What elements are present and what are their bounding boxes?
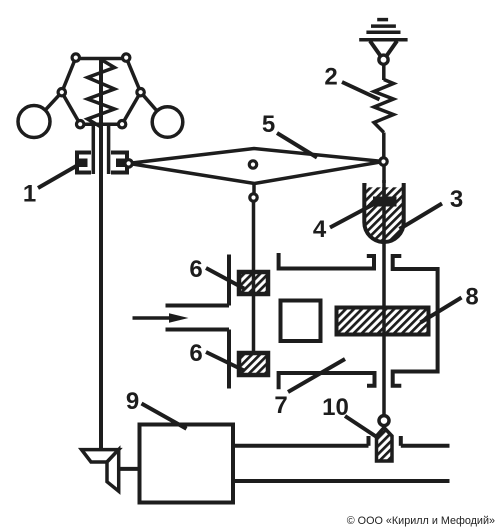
svg-text:4: 4 xyxy=(313,216,327,243)
svg-text:8: 8 xyxy=(465,284,478,311)
air arrow shaft xyxy=(133,316,173,320)
governor arm lower right xyxy=(122,92,141,124)
link joint circle xyxy=(250,194,257,201)
joint mid-right xyxy=(137,89,144,96)
svg-text:6: 6 xyxy=(189,340,202,367)
label 4 pointer xyxy=(330,204,374,228)
lever 5 top edge xyxy=(129,149,384,164)
svg-text:10: 10 xyxy=(322,394,349,421)
svg-text:6: 6 xyxy=(189,256,202,283)
anchor joint circle xyxy=(379,55,388,64)
venturi wall lower xyxy=(227,330,231,389)
joint top-left xyxy=(72,54,79,61)
flyweight ball right xyxy=(152,107,183,138)
sleeve bracket right xyxy=(111,153,127,173)
link from lever to rod xyxy=(252,184,256,195)
sleeve bracket left xyxy=(77,153,91,173)
spring 2 xyxy=(374,80,394,133)
valve 10 joint circle xyxy=(379,416,389,426)
fuel line upper left tick xyxy=(367,436,371,446)
sleeve bearing left xyxy=(78,159,88,168)
anchor line 1 xyxy=(377,18,388,22)
lever right pivot circle xyxy=(380,158,387,165)
drive box 9 xyxy=(140,425,234,503)
main rod segment through dome top xyxy=(382,180,386,197)
float chamber square 7 xyxy=(281,301,321,342)
throttle rod xyxy=(252,202,256,356)
fuel line upper left xyxy=(234,444,369,448)
fuel line lower xyxy=(234,479,450,483)
main rod right xyxy=(382,165,386,415)
governor arm upper right xyxy=(126,58,140,93)
label 7 pointer xyxy=(288,359,345,392)
anchor triangle leg left xyxy=(370,41,382,58)
throttle plate 6 upper xyxy=(239,272,268,294)
anchor triangle leg right xyxy=(385,41,397,58)
bevel gear horizontal blade xyxy=(82,450,119,462)
joint mid-left xyxy=(58,89,65,96)
svg-text:3: 3 xyxy=(450,186,463,213)
sleeve rod left xyxy=(92,126,96,175)
governor shaft xyxy=(99,59,103,450)
anchor line 3 xyxy=(366,31,400,35)
svg-text:5: 5 xyxy=(262,111,275,138)
label 3 pointer xyxy=(400,204,443,230)
label 9 pointer xyxy=(142,404,187,429)
spring upper link xyxy=(382,64,386,80)
label 10 pointer xyxy=(345,416,379,439)
spring lower link xyxy=(382,133,386,159)
gear link to box xyxy=(119,467,140,471)
governor arm upper left xyxy=(62,58,76,93)
svg-text:2: 2 xyxy=(324,64,337,91)
joint bottom-left xyxy=(77,121,84,128)
inlet top wall xyxy=(166,304,230,308)
label 6a pointer xyxy=(206,268,244,289)
label 6b pointer xyxy=(206,352,244,371)
needle 4 xyxy=(373,197,397,207)
governor arm lower left xyxy=(62,92,80,124)
inlet bottom wall xyxy=(166,328,230,332)
joint top-right xyxy=(123,54,130,61)
chamber top-left bracket xyxy=(279,253,374,269)
governor top bar xyxy=(76,57,126,61)
throttle plate 6 lower xyxy=(239,353,268,375)
fuel line upper right tick xyxy=(399,436,403,446)
valve 10 plug xyxy=(377,428,393,462)
anchor base line xyxy=(359,38,407,42)
sleeve rod right xyxy=(107,126,111,175)
air arrow head xyxy=(169,313,189,323)
venturi wall upper xyxy=(227,255,231,306)
label 2 pointer xyxy=(342,82,380,100)
dome top white band xyxy=(367,183,402,187)
sleeve bearing right xyxy=(116,159,126,168)
label 8 pointer xyxy=(421,298,462,323)
label 1 pointer xyxy=(38,165,78,188)
bevel gear vertical blade xyxy=(107,450,119,492)
valve plate 8 xyxy=(337,308,429,335)
joint bottom-right xyxy=(118,121,125,128)
lever left pivot circle xyxy=(125,160,132,167)
label 5 pointer xyxy=(277,133,317,158)
svg-text:7: 7 xyxy=(274,392,287,419)
lever fulcrum circle xyxy=(249,161,256,168)
svg-text:1: 1 xyxy=(23,180,36,207)
governor arm to right ball xyxy=(141,92,164,119)
fuel line upper right xyxy=(401,444,450,448)
flyweight ball left xyxy=(18,106,50,138)
governor bottom bar xyxy=(80,122,122,126)
chamber right wall xyxy=(393,256,438,386)
anchor line 2 xyxy=(371,24,396,28)
dome 3 xyxy=(364,183,403,242)
svg-text:© ООО «Кирилл и Мефодий»: © ООО «Кирилл и Мефодий» xyxy=(347,515,495,527)
lever 5 bottom edge xyxy=(129,162,384,184)
svg-text:9: 9 xyxy=(126,388,139,415)
governor arm to left ball xyxy=(37,92,62,119)
governor spring xyxy=(88,60,115,128)
chamber bottom-left bracket xyxy=(279,373,375,389)
